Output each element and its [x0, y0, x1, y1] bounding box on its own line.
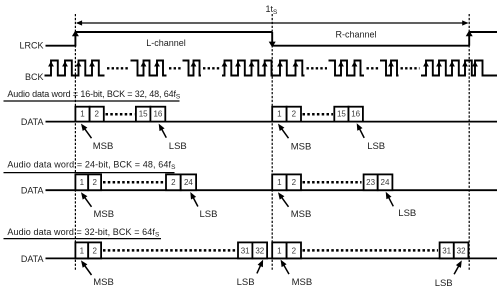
svg-text:MSB: MSB: [94, 209, 115, 220]
svg-text:32: 32: [457, 246, 466, 255]
header underline row 3: [4, 238, 162, 240]
data bit cells L-channel row 3: [75, 242, 267, 258]
MSB arrow R row 3: [281, 260, 289, 275]
svg-text:2: 2: [171, 178, 176, 187]
right sample boundary dash-dot line: [468, 14, 470, 271]
LRCK rising edge at right boundary: [466, 30, 473, 45]
data bit cells L-channel row 2: [75, 174, 196, 190]
svg-text:23: 23: [366, 178, 375, 187]
LRCK rising edge at left boundary: [72, 30, 79, 45]
wire LRCK high (L-channel): [75, 31, 272, 33]
svg-text:BCK: BCK: [25, 72, 44, 82]
svg-text:LSB: LSB: [398, 208, 416, 219]
MSB label L row 1: [93, 141, 114, 152]
svg-text:24: 24: [381, 178, 390, 187]
svg-text:16: 16: [153, 110, 162, 119]
header text row 1: 16-bit: [7, 89, 181, 101]
svg-text:L-channel: L-channel: [146, 38, 186, 48]
DATA R-channel dotted gap row 1: [303, 113, 334, 116]
MSB arrow L row 2: [81, 192, 92, 207]
LRCK label: [19, 41, 43, 51]
MSB arrow L row 3: [81, 260, 92, 275]
svg-text:15: 15: [337, 110, 346, 119]
svg-text:MSB: MSB: [291, 209, 312, 220]
svg-text:1: 1: [277, 246, 282, 255]
LSB label L row 1: [169, 141, 187, 152]
DATA L-channel dotted gap row 3: [103, 249, 237, 252]
header underline row 2: [4, 172, 175, 174]
LSB arrow L row 2: [190, 192, 198, 207]
svg-text:2: 2: [292, 110, 297, 119]
svg-text:15: 15: [139, 110, 148, 119]
LSB label L row 3: [237, 277, 255, 288]
svg-text:1: 1: [277, 110, 282, 119]
header text row 3: 32-bit: [7, 227, 160, 239]
header text row 2: 24-bit: [7, 160, 176, 172]
svg-text:MSB: MSB: [93, 141, 114, 152]
svg-text:LSB: LSB: [200, 209, 218, 220]
MSB label R row 2: [291, 209, 312, 220]
LSB arrow L row 1: [159, 124, 167, 138]
svg-text:1: 1: [277, 178, 282, 187]
svg-text:1: 1: [80, 246, 85, 255]
MSB label L row 2: [94, 209, 115, 220]
data bit cells R-channel row 2: [272, 174, 392, 190]
LSB arrow R row 1: [357, 123, 365, 138]
LSB arrow R row 3: [454, 260, 462, 274]
LSB label R row 2: [398, 208, 416, 219]
svg-text:LSB: LSB: [435, 278, 453, 289]
1ts dimension line: [76, 20, 469, 25]
MSB label L row 3: [93, 277, 114, 288]
svg-text:LSB: LSB: [367, 141, 385, 152]
svg-text:Audio data word = 24-bit, BCK: Audio data word = 24-bit, BCK = 48, 64fS: [7, 160, 176, 172]
svg-text:2: 2: [94, 110, 99, 119]
data bit cells R-channel row 1: [272, 107, 363, 122]
svg-text:LRCK: LRCK: [19, 41, 43, 51]
svg-text:31: 31: [442, 246, 451, 255]
L-channel label: [146, 38, 186, 48]
svg-text:Audio data word = 32-bit, BCK: Audio data word = 32-bit, BCK = 64fS: [7, 227, 160, 239]
svg-text:LSB: LSB: [237, 277, 255, 288]
DATA label row 2: [21, 186, 44, 196]
svg-text:R-channel: R-channel: [335, 30, 376, 40]
svg-text:2: 2: [92, 246, 97, 255]
svg-text:LSB: LSB: [169, 141, 187, 152]
svg-text:DATA: DATA: [21, 254, 44, 264]
DATA L-channel dotted gap row 2: [103, 181, 165, 184]
1ts label: [266, 4, 279, 16]
wire DATA baseline row 2: [46, 189, 498, 191]
data bit cells L-channel row 1: [75, 107, 165, 122]
MSB label R row 3: [292, 277, 313, 288]
MSB label R row 1: [291, 141, 312, 152]
svg-text:2: 2: [292, 246, 297, 255]
BCK omitted-cycles dotted segments: [107, 67, 420, 69]
LSB arrow R row 2: [386, 192, 394, 207]
wire DATA baseline row 1: [46, 121, 498, 123]
data bit cells R-channel row 3: [272, 242, 468, 258]
DATA L-channel dotted gap row 1: [106, 113, 135, 116]
MSB arrow L row 1: [81, 124, 92, 139]
svg-text:DATA: DATA: [21, 117, 44, 127]
svg-text:31: 31: [241, 246, 250, 255]
svg-text:MSB: MSB: [291, 141, 312, 152]
svg-text:2: 2: [92, 178, 97, 187]
center channel boundary dash-dot line: [271, 14, 273, 271]
LSB label R row 3: [435, 278, 453, 289]
svg-text:24: 24: [184, 178, 193, 187]
svg-text:2: 2: [292, 178, 297, 187]
LSB label R row 1: [367, 141, 385, 152]
DATA label row 1: [21, 117, 44, 127]
wire LRCK high tail: [469, 31, 497, 33]
wire LRCK lead (low): [46, 45, 77, 47]
R-channel label: [335, 30, 376, 40]
LSB arrow L row 3: [257, 260, 263, 274]
LSB label L row 2: [200, 209, 218, 220]
svg-text:MSB: MSB: [93, 277, 114, 288]
svg-text:16: 16: [351, 110, 360, 119]
wire DATA baseline row 3: [46, 257, 498, 259]
header underline row 1: [4, 100, 180, 102]
svg-text:1: 1: [80, 110, 85, 119]
MSB arrow R row 2: [278, 192, 289, 207]
BCK clock waveform: [45, 61, 498, 76]
wire LRCK low (R-channel): [272, 45, 469, 47]
svg-text:Audio data word = 16-bit, BCK: Audio data word = 16-bit, BCK = 32, 48, …: [7, 89, 181, 101]
MSB arrow R row 1: [278, 124, 289, 139]
DATA R-channel dotted gap row 3: [303, 249, 439, 252]
DATA R-channel dotted gap row 2: [303, 181, 362, 184]
svg-text:DATA: DATA: [21, 186, 44, 196]
LRCK falling edge at center boundary: [269, 32, 276, 47]
svg-text:1: 1: [80, 178, 85, 187]
DATA label row 3: [21, 254, 44, 264]
svg-text:MSB: MSB: [292, 277, 313, 288]
svg-text:32: 32: [255, 246, 264, 255]
BCK label: [25, 72, 44, 82]
left sample boundary dash-dot line: [74, 14, 76, 271]
